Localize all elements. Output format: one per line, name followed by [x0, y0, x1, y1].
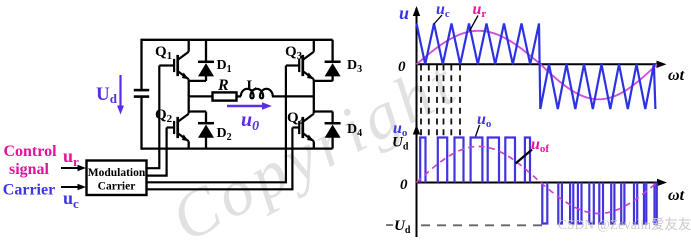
sine ur top	[417, 31, 658, 100]
wire Q3 collector column	[313, 40, 315, 52]
arrow y bottom plot	[413, 125, 420, 135]
wire gate Q4	[147, 128, 293, 190]
wire gate Q2	[147, 128, 167, 176]
dashed crossing line 4	[443, 65, 445, 137]
transistor Q2	[167, 114, 191, 144]
wire D4 stub	[314, 110, 333, 112]
pointer line uc	[434, 15, 443, 25]
capacitor plates	[134, 90, 149, 97]
wire bottom rail	[142, 147, 333, 149]
axis x bottom	[416, 182, 660, 184]
wire D2 stub	[189, 110, 206, 112]
svg-text:Carrier: Carrier	[3, 182, 55, 199]
wire Q1 collector column	[188, 40, 190, 52]
wire R to L	[237, 95, 242, 97]
wire L to right midpoint	[272, 95, 314, 97]
pointer line uo	[476, 125, 480, 137]
wire top rail	[142, 39, 333, 41]
carrier uc wave	[417, 24, 656, 110]
uof dashed sine	[417, 147, 658, 214]
svg-text:Modulation: Modulation	[88, 167, 146, 179]
modulation box U5	[87, 161, 147, 196]
svg-text:signal: signal	[9, 161, 50, 178]
transistor Q3	[286, 52, 315, 82]
pwm negative pulses	[542, 183, 657, 224]
wire Q2 emitter to bottom rail	[188, 141, 190, 148]
u0 arrow	[227, 102, 272, 109]
wire Q1 emitter / midpoint column	[188, 79, 190, 113]
dashed crossing line 1	[420, 65, 422, 137]
svg-text:ωt: ωt	[668, 67, 685, 84]
diode D1	[198, 62, 214, 77]
dashed crossing line 3	[436, 65, 438, 137]
Ud arrow	[117, 75, 124, 115]
wire Q3 emitter / right midpoint column	[313, 79, 315, 113]
svg-text:ωt: ωt	[668, 187, 685, 204]
arrow y top	[413, 6, 420, 16]
pointer line ur	[470, 16, 479, 32]
transistor Q1	[159, 52, 190, 82]
svg-text:0: 0	[398, 59, 406, 75]
wire D1 column	[205, 40, 207, 62]
wire D3 stub	[314, 80, 333, 82]
diode D3	[325, 62, 341, 77]
svg-text:L: L	[247, 78, 257, 94]
svg-text:R: R	[217, 77, 229, 94]
wire D3 column	[331, 40, 333, 62]
wire left column top (to capacitor)	[140, 39, 142, 90]
diode D4	[325, 123, 341, 138]
svg-text:Control: Control	[3, 143, 57, 160]
axis x top	[416, 63, 660, 65]
wire load left	[189, 95, 213, 97]
wire D2 column	[205, 112, 207, 125]
diode D2	[198, 123, 214, 138]
wire Q4 emitter to bottom rail	[313, 141, 315, 148]
transistor Q4	[292, 114, 315, 144]
wire gate Q3	[147, 66, 286, 183]
wire gate Q1	[147, 66, 160, 169]
wire left column bottom	[140, 97, 142, 150]
dashed crossing line 5	[450, 65, 452, 137]
resistor R	[213, 92, 237, 100]
svg-text:Carrier: Carrier	[98, 181, 136, 193]
wire D1 stub	[189, 80, 206, 82]
dashed crossing line 6	[459, 65, 461, 137]
pointer line uof	[516, 150, 533, 164]
input arrow ur	[61, 165, 86, 171]
inductor L	[241, 89, 273, 99]
dashed crossing line 2	[428, 65, 430, 137]
input arrow uc	[61, 184, 86, 190]
svg-text:0: 0	[400, 177, 408, 193]
pwm positive pulses	[420, 138, 530, 183]
svg-text:CSDN @Zevalin爱友友: CSDN @Zevalin爱友友	[558, 217, 691, 232]
svg-text:u: u	[399, 3, 409, 23]
-Ud dashed level	[421, 224, 543, 226]
axis y shared	[416, 8, 418, 237]
wire D4 column	[331, 112, 333, 125]
